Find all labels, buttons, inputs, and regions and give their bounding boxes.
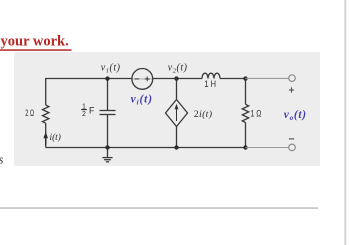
capacitor branch lower wire: [107, 115, 109, 148]
capacitor C1 1/2 F branch upper wire: [107, 79, 109, 111]
node v1 junction dot top: [105, 76, 109, 80]
svg-text:your work.: your work.: [1, 33, 69, 49]
wire: top rail left segment: [46, 79, 132, 106]
voltage source U1 vi(t): [132, 69, 153, 90]
bottom divider line: [0, 207, 318, 208]
wire: v2 node to diamond: [176, 79, 178, 100]
svg-text:2 Ω: 2 Ω: [25, 108, 34, 118]
svg-text:F: F: [89, 106, 95, 116]
svg-text:vi(t): vi(t): [131, 94, 153, 107]
node dot right top: [243, 76, 247, 80]
ground: [102, 148, 112, 162]
current arrow i(t) head: [43, 132, 48, 138]
wire: to bottom output terminal: [246, 147, 289, 149]
svg-text:vo(t): vo(t): [284, 109, 307, 122]
wire: left vertical bottom: [45, 123, 47, 147]
svg-text:2i(t): 2i(t): [194, 109, 213, 120]
red underline: [0, 49, 72, 51]
current arrow i(t) shaft: [45, 137, 47, 146]
minus sign: [289, 138, 294, 140]
junction dot right bottom: [243, 145, 247, 149]
wire: top rail right segment: [220, 78, 246, 80]
junction dot bottom of diamond branch: [174, 145, 178, 149]
resistor R2 zigzag: [242, 104, 248, 122]
wire: bottom rail: [46, 147, 246, 149]
svg-text:s: s: [0, 153, 4, 167]
value label 1/2 F: [81, 104, 95, 118]
svg-text:2: 2: [82, 111, 86, 118]
plus sign: [289, 87, 294, 92]
wire: right branch lower: [245, 123, 247, 148]
wire: right branch upper: [245, 79, 247, 105]
right vertical divider: [344, 0, 346, 245]
wire: diamond to bottom rail: [176, 127, 178, 148]
capacitor C1 top plate: [100, 110, 116, 112]
output terminal bottom: [289, 144, 296, 151]
dependent current source diamond: [166, 100, 188, 127]
svg-text:v1(t): v1(t): [101, 63, 121, 75]
output terminal top: [289, 75, 296, 82]
resistor R1 zigzag: [43, 105, 49, 123]
svg-text:v2(t): v2(t): [168, 63, 188, 75]
svg-text:1 Ω: 1 Ω: [251, 109, 262, 119]
gray figure panel: [14, 52, 320, 166]
capacitor C1 bottom plate: [100, 114, 116, 116]
svg-text:i(t): i(t): [50, 132, 61, 143]
svg-text:1 H: 1 H: [204, 79, 216, 89]
wire: to top output terminal: [246, 77, 289, 79]
node v2 junction dot top: [174, 76, 178, 80]
inductor L1 coil: [202, 73, 220, 78]
junction dot bottom of capacitor branch: [105, 145, 109, 149]
wire: top rail middle segment: [153, 78, 202, 80]
